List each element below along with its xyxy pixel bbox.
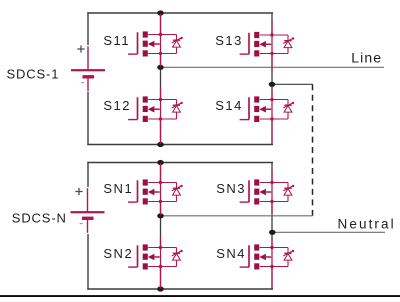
transistor SN4	[240, 238, 288, 289]
node bottom rail junction bridge 1	[157, 142, 164, 147]
svg-text:SDCS-N: SDCS-N	[12, 210, 67, 225]
label Neutral	[338, 217, 396, 232]
wire mid leg bridge 1 (S11 to node a)	[160, 54, 162, 68]
wire right leg bridge N (SN4 to bottom rail)	[271, 267, 273, 290]
wire right leg bridge 1 (node b to S14)	[271, 84, 273, 99]
svg-text:SDCS-1: SDCS-1	[7, 67, 60, 82]
diode DN2 antiparallel with SN2	[172, 248, 183, 267]
label SN2	[103, 246, 133, 261]
diode DN1 antiparallel with SN1	[172, 183, 183, 202]
wire left leg of bridge N (upper part)	[87, 162, 89, 187]
diode D14 antiparallel with S14	[283, 100, 294, 120]
diode D12 antiparallel with S12	[172, 100, 183, 120]
wire left leg of bridge 1 (lower part)	[87, 92, 89, 145]
svg-text:Neutral: Neutral	[338, 217, 396, 232]
node d SN3-SN4 junction (Neutral tap)	[269, 230, 276, 235]
wire mid leg bridge 1 (rail to S11)	[160, 13, 162, 35]
node b S13-S14 junction (cascade)	[269, 82, 276, 87]
wire bottom rail of bridge 1	[87, 144, 273, 146]
node a S11-S12 junction (Line tap)	[157, 65, 164, 70]
svg-text:S14: S14	[215, 98, 243, 113]
wire cascade bottom horizontal	[161, 215, 313, 217]
battery SDCS-N plus terminal mark	[75, 188, 82, 195]
battery SDCS-N minus terminal mark	[80, 223, 83, 225]
wire mid leg bridge 1 (node a to S12)	[160, 67, 162, 99]
label SDCS-1	[7, 67, 60, 82]
wire right leg bridge 1 (rail to S13)	[271, 13, 273, 35]
wire top rail of bridge 1	[87, 12, 273, 14]
svg-text:S13: S13	[215, 33, 243, 48]
wire right leg bridge 1 (S13 to node b)	[271, 54, 273, 85]
diode DN4 antiparallel with SN4	[283, 248, 294, 267]
node c SN1-SN2 junction (cascade)	[157, 213, 164, 218]
transistor SN3	[240, 169, 288, 213]
wire mid leg bridge 1 (S12 to bottom rail)	[160, 119, 162, 145]
svg-text:S12: S12	[103, 98, 131, 113]
wire right leg bridge N (node d to SN4)	[271, 232, 273, 247]
battery SDCS-N dc source	[71, 188, 105, 233]
label Line	[351, 50, 382, 66]
wire mid leg bridge N (node c to SN2)	[160, 216, 162, 248]
diode D13 antiparallel with S13	[283, 35, 294, 54]
transistor S11	[128, 14, 176, 67]
transistor SN1	[128, 163, 176, 215]
diode D11 antiparallel with S11	[172, 35, 183, 54]
diode DN3 antiparallel with SN3	[283, 183, 294, 202]
svg-text:SN2: SN2	[103, 246, 133, 261]
bottom horizontal rule	[0, 295, 400, 297]
node top rail junction bridge N	[157, 160, 164, 165]
svg-text:Line: Line	[351, 50, 382, 66]
wire mid leg bridge N (rail to SN1)	[160, 163, 162, 183]
wire mid leg bridge N (SN2 to bottom rail)	[160, 267, 162, 290]
transistor S13	[240, 19, 288, 72]
battery SDCS-1 minus terminal mark	[81, 82, 84, 84]
svg-text:SN1: SN1	[103, 181, 133, 196]
wire cascade top horizontal	[272, 83, 313, 85]
wire bottom rail of bridge N	[87, 288, 273, 290]
svg-text:S11: S11	[103, 33, 130, 48]
wire cascade dashed vertical	[312, 84, 314, 216]
svg-text:SN4: SN4	[216, 246, 246, 261]
label S13	[215, 33, 243, 48]
wire Line output	[161, 66, 385, 68]
wire Neutral output	[272, 231, 385, 233]
label S11	[103, 33, 130, 48]
svg-text:SN3: SN3	[216, 181, 246, 196]
wire right leg bridge N (SN3 to node d)	[271, 202, 273, 233]
label S14	[215, 98, 243, 113]
label S12	[103, 98, 131, 113]
wire top rail of bridge N	[87, 162, 273, 164]
wire right leg bridge 1 (S14 to bottom rail)	[271, 119, 273, 145]
wire right leg bridge N (rail to SN3)	[271, 163, 273, 183]
label SDCS-N	[12, 210, 67, 225]
battery SDCS-1 plus terminal mark	[77, 45, 84, 52]
wire mid leg bridge N (SN1 to node c)	[160, 202, 162, 216]
wire left leg of bridge 1 (upper part)	[87, 12, 89, 45]
wire left leg of bridge N (lower part)	[87, 234, 89, 290]
transistor SN2	[128, 237, 176, 289]
battery SDCS-1 dc source	[71, 46, 105, 91]
node top rail junction bridge 1	[157, 10, 164, 15]
label SN1	[103, 181, 133, 196]
transistor S14	[240, 90, 288, 144]
label SN3	[216, 181, 246, 196]
transistor S12	[128, 88, 176, 144]
label SN4	[216, 246, 246, 261]
node bottom rail junction bridge N	[157, 286, 164, 291]
